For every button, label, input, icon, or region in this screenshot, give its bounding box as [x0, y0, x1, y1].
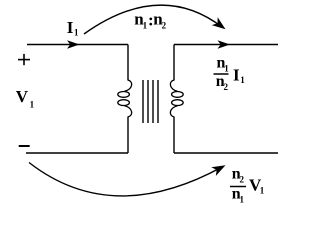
wire right vertical top: [173, 45, 175, 81]
turns ratio curved arrow (top): [84, 5, 228, 34]
wire top-left (primary top lead): [27, 44, 128, 46]
label n1 : n2 (turns ratio): [134, 9, 166, 30]
inductor secondary winding: [170, 80, 183, 117]
minus polarity sign: [19, 145, 30, 147]
svg-text:1: 1: [240, 75, 245, 85]
voltage transfer curved arrow (bottom): [29, 161, 228, 196]
svg-text:I: I: [233, 65, 240, 84]
svg-text:1: 1: [30, 99, 35, 109]
svg-text:1: 1: [224, 64, 229, 74]
svg-text:1: 1: [260, 185, 265, 195]
inductor primary winding: [118, 80, 132, 117]
label V1 (primary voltage): [16, 87, 35, 109]
svg-text:1: 1: [74, 27, 79, 37]
svg-text:2: 2: [240, 175, 245, 185]
current arrow secondary (arrowhead on secondary top lead): [218, 40, 231, 49]
svg-text:2: 2: [162, 20, 167, 30]
svg-text:2: 2: [224, 82, 229, 92]
wire bottom-right (secondary bottom lead): [174, 152, 278, 154]
wire top-right (secondary top lead): [174, 44, 278, 46]
current arrow I1 (arrowhead on primary top lead): [67, 40, 80, 49]
svg-text:1: 1: [240, 195, 245, 205]
svg-text:I: I: [67, 18, 74, 37]
svg-text:1: 1: [143, 20, 148, 30]
wire left vertical bottom: [127, 117, 129, 154]
label I1: [67, 18, 79, 38]
plus polarity sign: [18, 54, 30, 65]
wire bottom-left (primary bottom lead): [26, 152, 128, 154]
label secondary voltage (n2/n1)V1: [230, 166, 265, 205]
wire right vertical bottom: [173, 117, 175, 154]
svg-text:V: V: [16, 87, 29, 106]
wire left vertical top: [127, 45, 129, 81]
label secondary current (n1/n2)I1: [214, 55, 246, 93]
transformer core: [143, 80, 158, 123]
